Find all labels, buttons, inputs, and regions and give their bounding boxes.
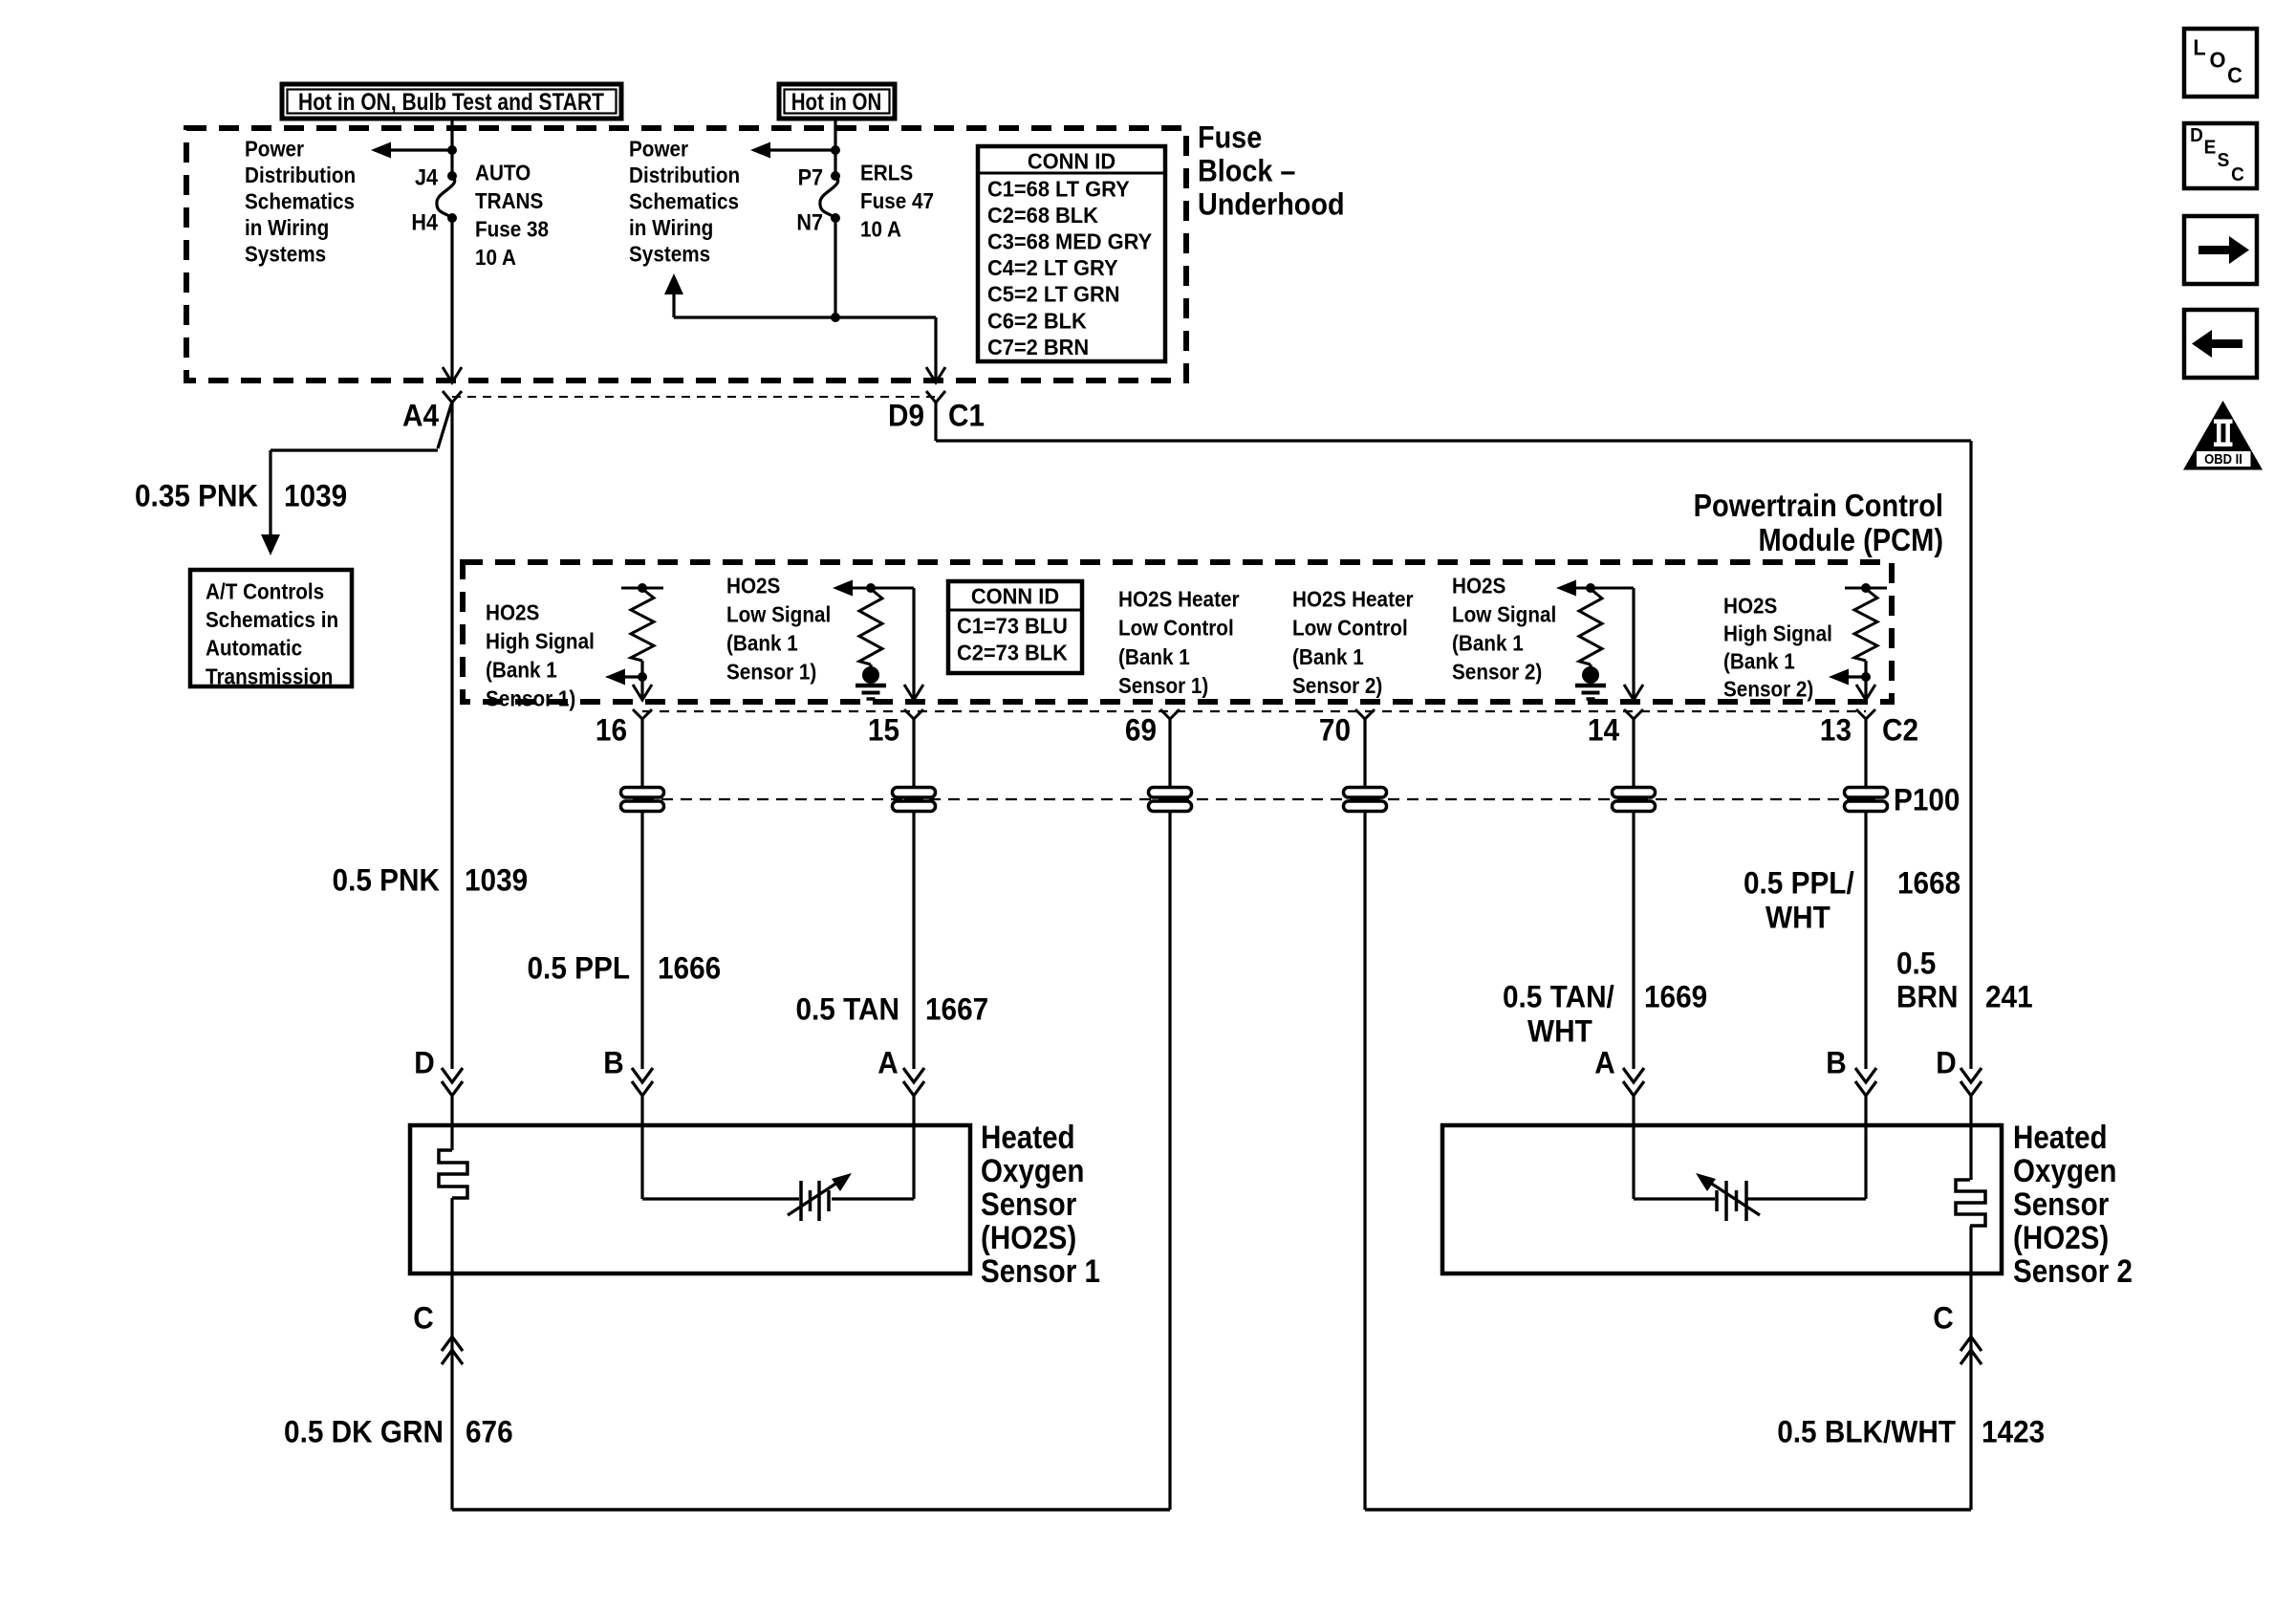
svg-text:C: C <box>2231 164 2244 186</box>
svg-text:10 A: 10 A <box>860 216 901 241</box>
svg-text:High Signal: High Signal <box>1723 620 1832 645</box>
svg-text:AUTO: AUTO <box>475 160 531 185</box>
svg-text:0.5 TAN: 0.5 TAN <box>795 992 899 1027</box>
svg-text:Sensor 2): Sensor 2) <box>1292 673 1382 698</box>
svg-text:(Bank 1: (Bank 1 <box>1292 644 1364 669</box>
svg-text:L: L <box>2193 35 2205 60</box>
svg-text:14: 14 <box>1588 713 1620 748</box>
svg-text:Block –: Block – <box>1198 154 1295 188</box>
svg-text:OBD II: OBD II <box>2204 451 2242 467</box>
svg-text:Low Signal: Low Signal <box>726 601 831 626</box>
svg-text:Low Control: Low Control <box>1118 616 1234 641</box>
svg-text:1039: 1039 <box>284 479 347 513</box>
svg-text:HO2S: HO2S <box>1452 573 1505 598</box>
svg-text:D: D <box>414 1046 434 1080</box>
svg-text:Sensor 1): Sensor 1) <box>486 686 575 710</box>
svg-text:D: D <box>1936 1046 1956 1080</box>
svg-text:Sensor: Sensor <box>981 1186 1076 1222</box>
svg-text:1669: 1669 <box>1644 980 1707 1014</box>
svg-text:241: 241 <box>1985 980 2033 1014</box>
svg-text:1667: 1667 <box>925 992 988 1027</box>
svg-text:N7: N7 <box>796 209 823 235</box>
svg-text:in Wiring: in Wiring <box>629 215 713 240</box>
svg-text:0.5: 0.5 <box>1896 947 1936 981</box>
svg-text:15: 15 <box>868 713 899 748</box>
svg-text:A: A <box>1594 1046 1614 1080</box>
svg-text:0.5 DK GRN: 0.5 DK GRN <box>284 1415 444 1449</box>
svg-text:Sensor 1: Sensor 1 <box>981 1252 1100 1289</box>
svg-text:C4=2 LT GRY: C4=2 LT GRY <box>987 256 1118 281</box>
svg-text:Fuse: Fuse <box>1198 120 1262 155</box>
svg-text:C2=73 BLK: C2=73 BLK <box>957 641 1068 665</box>
svg-text:C1=73 BLU: C1=73 BLU <box>957 614 1068 639</box>
svg-text:(Bank 1: (Bank 1 <box>1723 648 1795 673</box>
svg-text:D: D <box>2190 125 2203 147</box>
svg-text:WHT: WHT <box>1527 1014 1592 1049</box>
svg-text:(HO2S): (HO2S) <box>981 1219 1076 1255</box>
svg-text:0.5 BLK/WHT: 0.5 BLK/WHT <box>1777 1415 1956 1449</box>
svg-text:Automatic: Automatic <box>206 636 302 661</box>
svg-text:Systems: Systems <box>629 241 710 266</box>
svg-text:1668: 1668 <box>1897 866 1960 901</box>
svg-text:C6=2 BLK: C6=2 BLK <box>987 309 1087 334</box>
svg-text:C3=68 MED GRY: C3=68 MED GRY <box>987 229 1152 254</box>
svg-text:0.5 PPL/: 0.5 PPL/ <box>1744 866 1854 901</box>
svg-text:1039: 1039 <box>465 863 528 898</box>
svg-text:0.5 TAN/: 0.5 TAN/ <box>1503 980 1614 1014</box>
svg-text:Hot in ON: Hot in ON <box>791 88 882 115</box>
svg-text:16: 16 <box>596 713 627 748</box>
svg-text:B: B <box>1826 1046 1846 1080</box>
svg-text:P100: P100 <box>1894 783 1960 817</box>
svg-text:69: 69 <box>1125 713 1157 748</box>
svg-text:HO2S: HO2S <box>486 599 539 624</box>
svg-text:Sensor 2: Sensor 2 <box>2013 1252 2133 1289</box>
svg-text:10 A: 10 A <box>475 245 516 270</box>
svg-text:Distribution: Distribution <box>245 163 356 187</box>
svg-text:D9: D9 <box>888 399 924 433</box>
svg-text:C5=2 LT GRN: C5=2 LT GRN <box>987 282 1120 307</box>
svg-text:C: C <box>413 1301 433 1336</box>
svg-text:WHT: WHT <box>1765 901 1830 935</box>
svg-text:Oxygen: Oxygen <box>2013 1152 2116 1188</box>
svg-text:Transmission: Transmission <box>206 664 333 688</box>
svg-text:A/T Controls: A/T Controls <box>206 578 324 603</box>
svg-text:HO2S Heater: HO2S Heater <box>1292 586 1414 611</box>
svg-text:Power: Power <box>629 136 689 161</box>
svg-text:Low Control: Low Control <box>1292 616 1408 641</box>
svg-text:J4: J4 <box>415 164 438 190</box>
svg-text:1423: 1423 <box>1982 1415 2045 1449</box>
svg-text:Low Signal: Low Signal <box>1452 601 1556 626</box>
svg-text:Sensor 2): Sensor 2) <box>1452 659 1542 684</box>
svg-text:C2: C2 <box>1882 713 1918 748</box>
svg-text:BRN: BRN <box>1896 980 1958 1014</box>
svg-text:CONN ID: CONN ID <box>971 584 1059 609</box>
svg-text:676: 676 <box>466 1415 513 1449</box>
svg-text:TRANS: TRANS <box>475 188 543 213</box>
svg-text:Sensor 1): Sensor 1) <box>726 659 816 684</box>
svg-text:Heated: Heated <box>981 1119 1075 1155</box>
svg-text:Oxygen: Oxygen <box>981 1152 1084 1188</box>
svg-text:S: S <box>2218 150 2230 172</box>
svg-text:Sensor: Sensor <box>2013 1186 2109 1222</box>
svg-text:Systems: Systems <box>245 241 326 266</box>
svg-text:13: 13 <box>1820 713 1852 748</box>
svg-text:Powertrain Control: Powertrain Control <box>1694 488 1943 523</box>
svg-text:Sensor 2): Sensor 2) <box>1723 676 1813 701</box>
svg-text:C: C <box>2227 63 2242 88</box>
svg-text:C2=68 BLK: C2=68 BLK <box>987 203 1098 228</box>
svg-text:Module (PCM): Module (PCM) <box>1758 522 1943 557</box>
svg-text:Power: Power <box>245 136 305 161</box>
svg-text:C1=68 LT GRY: C1=68 LT GRY <box>987 177 1130 202</box>
svg-text:(Bank 1: (Bank 1 <box>486 657 557 682</box>
svg-text:A4: A4 <box>402 399 440 433</box>
svg-text:Underhood: Underhood <box>1198 187 1345 222</box>
svg-text:(HO2S): (HO2S) <box>2013 1219 2109 1255</box>
svg-text:0.5 PPL: 0.5 PPL <box>528 951 630 986</box>
svg-text:HO2S: HO2S <box>726 573 780 598</box>
svg-text:Heated: Heated <box>2013 1119 2108 1155</box>
svg-text:O: O <box>2210 48 2226 73</box>
svg-text:70: 70 <box>1319 713 1351 748</box>
svg-text:in Wiring: in Wiring <box>245 215 329 240</box>
svg-text:C7=2 BRN: C7=2 BRN <box>987 335 1089 359</box>
svg-text:ERLS: ERLS <box>860 160 913 185</box>
svg-text:Fuse 47: Fuse 47 <box>860 188 934 213</box>
svg-text:HO2S: HO2S <box>1723 593 1777 618</box>
svg-text:Schematics in: Schematics in <box>206 607 338 632</box>
svg-text:A: A <box>877 1046 898 1080</box>
svg-text:(Bank 1: (Bank 1 <box>726 630 798 655</box>
svg-text:Sensor 1): Sensor 1) <box>1118 673 1208 698</box>
svg-text:E: E <box>2204 137 2217 159</box>
svg-text:Distribution: Distribution <box>629 163 740 187</box>
svg-text:Schematics: Schematics <box>629 188 739 213</box>
svg-text:Hot in ON, Bulb Test and START: Hot in ON, Bulb Test and START <box>298 88 604 115</box>
svg-text:0.5 PNK: 0.5 PNK <box>333 863 441 898</box>
svg-text:H4: H4 <box>411 209 438 235</box>
svg-text:(Bank 1: (Bank 1 <box>1118 644 1190 669</box>
svg-text:C: C <box>1933 1301 1953 1336</box>
svg-text:High Signal: High Signal <box>486 628 595 653</box>
svg-text:HO2S Heater: HO2S Heater <box>1118 586 1240 611</box>
svg-text:Fuse 38: Fuse 38 <box>475 216 549 241</box>
svg-text:P7: P7 <box>798 164 823 190</box>
svg-text:(Bank 1: (Bank 1 <box>1452 630 1524 655</box>
svg-text:0.35 PNK: 0.35 PNK <box>135 479 259 513</box>
svg-text:CONN ID: CONN ID <box>1028 149 1116 174</box>
svg-text:1666: 1666 <box>658 951 721 986</box>
svg-text:B: B <box>603 1046 623 1080</box>
svg-text:C1: C1 <box>948 399 985 433</box>
svg-text:Schematics: Schematics <box>245 188 355 213</box>
